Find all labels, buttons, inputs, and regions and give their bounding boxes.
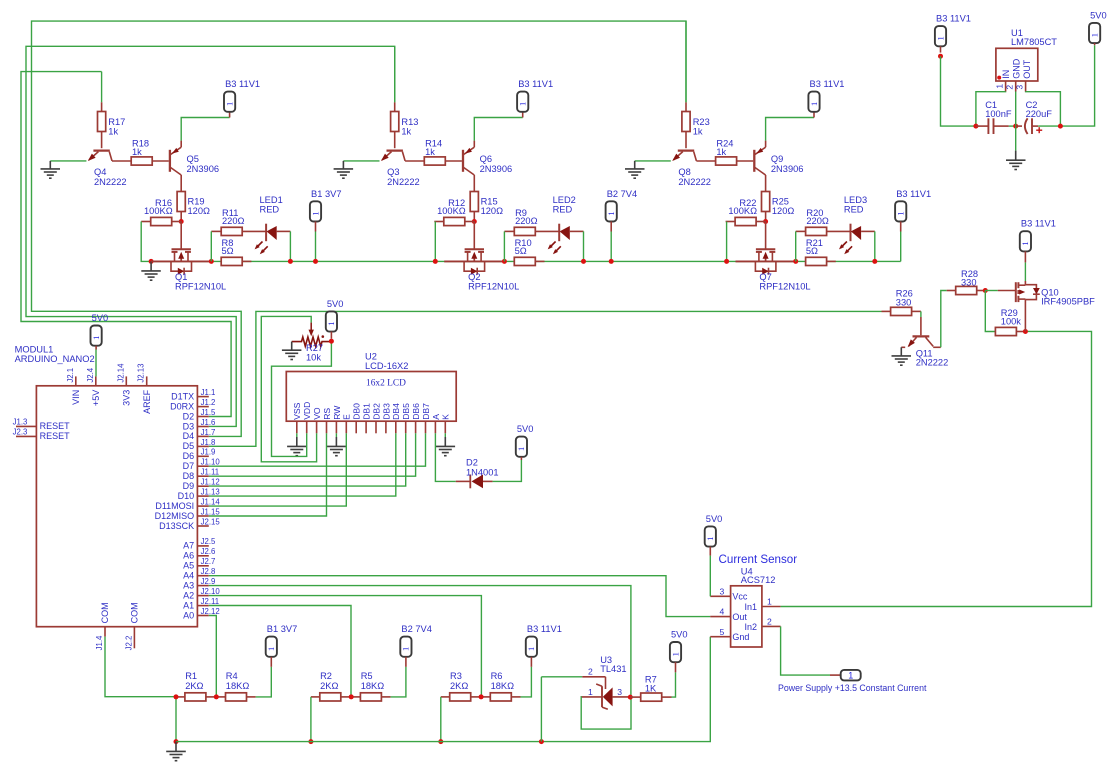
transistor Q9 2N3906 [754,141,803,192]
junction [149,259,154,264]
resistor R23 1k [685,102,687,111]
svg-text:DB4: DB4 [391,403,401,420]
svg-text:VO: VO [312,407,322,420]
wire (A1 to R2/R5) [209,606,351,698]
svg-text:RPF12N10L: RPF12N10L [759,282,810,292]
svg-text:LED1: LED1 [260,195,283,205]
pin VDD (U2) [302,402,312,434]
resistor R24 1k [696,138,753,165]
pin J1.13 D10 [178,488,220,501]
supply flag B3 11V1 (Q5 emitter) [224,79,260,117]
svg-text:D12MISO: D12MISO [155,511,195,521]
svg-text:R19: R19 [188,196,205,206]
resistor R13 1k [394,102,396,111]
ground [327,437,347,456]
wire [503,231,505,261]
svg-text:AREF: AREF [142,389,152,414]
wire (LCD A to D2) [435,433,455,481]
junction [433,259,438,264]
pin J2.2 COM [124,602,139,650]
svg-text:J2.15: J2.15 [201,517,221,526]
svg-text:R25: R25 [772,196,789,206]
pin J2.8 A4 [183,567,215,580]
svg-text:220Ω: 220Ω [515,216,538,226]
wire [493,460,522,481]
resistor R20 220Ω [796,208,851,236]
pin DB1 (U2) [362,403,372,433]
transistor Q10 IRF4905PBF (P-MOSFET) [998,281,1095,332]
svg-text:LCD-16X2: LCD-16X2 [365,361,408,371]
wire (D2 to R17 net) [21,72,231,417]
resistor R29 100k [995,308,1025,336]
wire [985,290,998,292]
svg-text:A1: A1 [183,600,194,610]
svg-text:D11MOSI: D11MOSI [155,501,194,511]
junction [983,288,988,293]
pin J2.10 A2 [183,587,220,600]
wire (U1 out) [1026,92,1061,127]
svg-text:J1.15: J1.15 [201,507,221,516]
svg-text:Q5: Q5 [187,154,199,164]
wire (D5 to R26 net) [209,311,882,446]
svg-text:D5: D5 [183,441,195,451]
wire [1009,125,1016,127]
svg-text:1: 1 [310,211,320,215]
svg-text:B3 11V1: B3 11V1 [936,14,971,24]
wire [343,160,379,162]
svg-text:1k: 1k [132,147,142,157]
pin J2.1 VIN [66,368,81,405]
pin J2.14 3V3 [116,363,131,406]
pin DB2 (U2) [371,403,381,433]
svg-text:VIN: VIN [71,390,81,405]
wire [315,232,317,262]
svg-text:2KΩ: 2KΩ [185,681,203,691]
svg-text:J1.8: J1.8 [201,438,216,447]
wire [521,667,532,697]
resistor R14 1k [405,138,462,165]
wire [736,260,796,262]
svg-text:Vcc: Vcc [732,591,748,601]
wire [583,231,585,261]
junction [1058,124,1063,129]
resistor R6 18KΩ [481,671,520,701]
svg-text:RPF12N10L: RPF12N10L [175,282,226,292]
pin J1.3 RESET [13,418,71,431]
wire [976,92,1006,127]
svg-text:RS: RS [322,408,332,420]
wire (D3 to R13 net) [26,46,395,426]
pin 5 Gnd (U4) [710,627,730,637]
junction [628,695,633,700]
svg-text:5Ω: 5Ω [806,246,818,256]
svg-text:K: K [441,414,451,420]
svg-text:A3: A3 [183,580,194,590]
svg-text:4: 4 [720,607,725,617]
ground [892,347,912,365]
junction [288,259,293,264]
wire (In1 to Q10) [781,331,1092,606]
svg-text:120Ω: 120Ω [772,206,795,216]
svg-text:D7: D7 [183,461,195,471]
junction [308,739,313,744]
resistor R15 120Ω [470,192,503,222]
svg-text:Gnd: Gnd [732,632,749,642]
svg-text:1: 1 [401,647,411,651]
svg-text:J2.6: J2.6 [201,547,216,556]
svg-text:2N2222: 2N2222 [916,357,949,367]
battery flag B2 7V4 [606,189,638,232]
ground [282,342,302,360]
pin A (U2) [431,414,441,434]
svg-text:J1.9: J1.9 [201,448,216,457]
wire (anode loop) [581,697,632,729]
svg-text:J1.6: J1.6 [201,418,216,427]
svg-text:E: E [342,414,352,420]
pin J1.9 D6 [183,448,216,461]
svg-text:Q2: Q2 [468,272,480,282]
pin DB0 (U2) [352,403,362,433]
wire (ground line) [176,637,710,742]
svg-text:2N2222: 2N2222 [94,177,127,187]
svg-text:In1: In1 [745,602,758,612]
svg-text:Out: Out [732,612,747,622]
junction [609,259,614,264]
supply flag 5V0 (backlight) [516,424,534,460]
svg-text:J2.13: J2.13 [137,364,146,383]
svg-text:ACS712: ACS712 [741,575,776,585]
supply flag B3 11V1 (Q9 emitter) [808,79,844,117]
svg-text:2: 2 [588,667,593,677]
svg-text:RESET: RESET [40,421,71,431]
wire (U1 GND) [1015,92,1017,151]
svg-text:R2: R2 [320,671,332,681]
svg-text:1: 1 [896,211,906,215]
pin 3 Vcc (U4) [710,586,730,596]
supply flag 5V0 (U4 Vcc) [705,514,723,556]
transistor Q7 RPF12N10L (N-MOSFET) [755,222,810,292]
svg-text:COM: COM [100,602,110,623]
resistor R10 5Ω [514,238,544,266]
pin J2.13 AREF [137,364,152,414]
svg-text:GND: GND [1011,58,1021,79]
svg-text:220Ω: 220Ω [806,216,829,226]
svg-text:J2.9: J2.9 [201,577,216,586]
junction [438,739,443,744]
svg-text:100k: 100k [1001,317,1022,327]
resistor R22 100KΩ [726,198,766,225]
wire (DB7 net) [209,433,426,466]
svg-text:1: 1 [518,102,528,106]
supply flag B3 11V1 (Q6 emitter) [517,79,553,117]
pin DB4 (U2) [391,403,401,433]
svg-text:2KΩ: 2KΩ [320,681,338,691]
svg-text:2N2222: 2N2222 [387,177,420,187]
pin J2.11 A1 [183,597,219,610]
svg-text:1: 1 [995,84,1005,89]
svg-text:Q9: Q9 [771,154,783,164]
svg-text:3: 3 [617,687,622,697]
resistor R7 1K [630,674,671,701]
potentiometer R27 10k [292,323,332,363]
wire [1024,262,1026,281]
svg-text:DB7: DB7 [421,403,431,420]
transistor Q8 2N2222 [672,151,711,187]
pin 2 GND (U1) [1005,81,1016,92]
wire (VO to R27 wiper) [261,316,316,461]
svg-text:J2.10: J2.10 [201,587,221,596]
LED LED1 RED [255,195,291,254]
pin J1.8 D5 [183,438,216,451]
svg-text:18KΩ: 18KΩ [491,681,515,691]
svg-text:RPF12N10L: RPF12N10L [468,282,519,292]
wire [900,232,902,262]
svg-text:RESET: RESET [40,431,71,441]
pin DB5 (U2) [401,403,411,433]
wire [920,311,922,317]
svg-text:R1: R1 [185,671,197,681]
svg-text:OUT: OUT [1022,59,1032,79]
wire [766,118,814,141]
wire [95,350,97,377]
pin VO (U2) [312,407,322,433]
pin J2.3 RESET [13,428,71,441]
svg-text:A4: A4 [183,571,194,581]
svg-text:5V0: 5V0 [706,514,723,524]
wire (A4 to U4 Out) [209,576,711,617]
junction [539,739,544,744]
ground [287,437,307,456]
pin J1.11 D8 [183,468,219,481]
wire [394,46,396,102]
junction [1023,329,1028,334]
svg-text:Current Sensor: Current Sensor [719,553,798,566]
svg-text:R13: R13 [401,117,418,127]
pin 1 In1 (U4) [762,597,781,607]
svg-text:B3 11V1: B3 11V1 [518,79,553,89]
svg-text:DB3: DB3 [381,403,391,420]
svg-text:D0RX: D0RX [170,401,194,411]
svg-text:1: 1 [606,211,616,215]
IC U4 ACS712 [731,567,776,647]
svg-text:+5V: +5V [91,390,101,406]
svg-text:1: 1 [516,447,526,451]
wire [726,222,728,262]
battery flag B2 7V4 [400,624,432,667]
wire [434,222,436,262]
resistor R17 1k [101,102,103,111]
IC U1 LM7805CT [996,28,1057,81]
wire [685,21,687,102]
svg-text:D2: D2 [183,411,195,421]
svg-text:D2: D2 [466,458,478,468]
svg-text:LM7805CT: LM7805CT [1011,37,1057,47]
wire [941,291,947,348]
ground [625,161,645,178]
pin RS (U2) [322,408,332,434]
junction [938,54,943,59]
svg-text:5V0: 5V0 [1090,10,1107,20]
wire (ref to ground line) [541,676,582,678]
pin J1.6 D3 [183,418,216,431]
svg-text:1k: 1k [716,147,726,157]
resistor R12 100KΩ [434,198,474,225]
svg-text:J2.7: J2.7 [201,557,216,566]
svg-text:J2.5: J2.5 [201,537,216,546]
junction [793,259,798,264]
junction [581,259,586,264]
svg-text:1: 1 [848,670,853,680]
pin 3 OUT (U1) [1015,81,1026,92]
svg-text:1: 1 [224,102,234,106]
svg-text:D4: D4 [183,431,195,441]
transistor Q4 2N2222 [88,151,127,187]
svg-text:DB1: DB1 [362,403,372,420]
wire (U1 input) [941,56,976,126]
wire [1038,45,1094,126]
svg-text:COM: COM [130,602,140,623]
wire (E net) [209,433,346,506]
resistor R26 330 [882,289,921,316]
wire [440,697,442,742]
pin J2.7 A5 [183,557,215,570]
resistor R16 100KΩ [141,198,181,225]
svg-text:1: 1 [266,647,276,651]
svg-text:B3 11V1: B3 11V1 [896,189,931,199]
svg-text:B3 11V1: B3 11V1 [1021,219,1056,229]
svg-text:J1.12: J1.12 [201,478,220,487]
svg-text:B2 7V4: B2 7V4 [607,189,638,199]
wire [141,222,151,262]
svg-text:ARDUINO_NANO2: ARDUINO_NANO2 [15,354,95,364]
ground [41,161,61,178]
pin J1.14 D11MOSI [155,497,220,511]
svg-text:D1TX: D1TX [171,391,194,401]
svg-text:J1.10: J1.10 [201,458,221,467]
svg-text:J2.1: J2.1 [66,368,75,383]
svg-text:5V0: 5V0 [327,299,344,309]
svg-text:RW: RW [332,405,342,420]
svg-text:1k: 1k [693,127,703,137]
svg-text:Q8: Q8 [678,167,690,177]
svg-text:J1.13: J1.13 [201,488,220,497]
svg-text:B1 3V7: B1 3V7 [311,189,342,199]
connector Power Supply [778,670,927,693]
pin VSS (U2) [292,402,302,433]
wire [151,260,211,262]
ground [1006,151,1026,170]
svg-text:100nF: 100nF [985,109,1012,119]
svg-text:1: 1 [935,36,945,40]
svg-text:2KΩ: 2KΩ [450,681,468,691]
svg-text:J1.11: J1.11 [201,468,220,477]
junction [1013,124,1018,129]
wire [672,672,676,697]
transistor Q3 2N2222 [381,151,420,187]
pin J2.5 A7 [183,537,216,550]
wire [985,291,995,332]
wire (COM to ground line) [105,637,176,697]
IC U3 TL431 (shunt reference) [581,655,631,709]
svg-text:RED: RED [844,205,864,215]
svg-text:B1 3V7: B1 3V7 [267,624,298,634]
svg-text:R17: R17 [108,117,125,127]
resistor R4 18KΩ [216,671,255,701]
svg-text:5: 5 [720,627,725,637]
junction [724,259,729,264]
diode D2 1N4001 [456,458,499,489]
wire (D4 to R23 net) [32,21,687,436]
svg-text:1k: 1k [425,147,435,157]
resistor R25 120Ω [762,192,795,222]
wire [444,433,446,437]
pin J2.6 A6 [183,547,215,560]
supply flag 5V0 (U1 out) [1089,10,1107,45]
svg-text:A0: A0 [183,610,194,620]
svg-text:A7: A7 [183,541,194,551]
svg-text:220Ω: 220Ω [222,216,245,226]
svg-text:IRF4905PBF: IRF4905PBF [1041,296,1095,306]
svg-text:5V0: 5V0 [671,630,688,640]
pin J1.4 COM [95,602,110,650]
svg-text:1K: 1K [645,683,657,693]
svg-text:100KΩ: 100KΩ [437,206,466,216]
svg-text:A: A [431,414,441,420]
wire [310,697,312,742]
wire (DB6 net) [209,433,416,476]
svg-text:120Ω: 120Ω [481,206,504,216]
wire (RS net) [209,433,327,516]
svg-text:R4: R4 [226,671,238,681]
svg-text:5V0: 5V0 [92,313,109,323]
resistor R3 2KΩ [441,671,481,701]
svg-text:2N3906: 2N3906 [771,164,804,174]
svg-text:U2: U2 [365,352,377,362]
svg-text:18KΩ: 18KΩ [361,681,385,691]
svg-text:J2.12: J2.12 [201,607,220,616]
pin J2.12 A0 [183,607,219,620]
pin J1.2 D0RX [170,398,215,412]
wire [181,118,229,141]
junction [209,259,214,264]
resistor R5 18KΩ [351,671,390,701]
svg-text:LED3: LED3 [844,195,867,205]
svg-text:1: 1 [767,597,772,607]
svg-text:Q7: Q7 [759,272,771,282]
resistor R21 5Ω [806,238,836,266]
junction [872,259,877,264]
ground [334,161,354,178]
svg-text:1: 1 [91,336,101,340]
svg-text:J1.1: J1.1 [201,388,216,397]
junction [329,339,334,344]
svg-text:100KΩ: 100KΩ [144,206,173,216]
svg-text:B2 7V4: B2 7V4 [401,624,432,634]
junction [313,259,318,264]
svg-text:D8: D8 [183,471,195,481]
wire [795,231,797,261]
svg-text:Power Supply +13.5 Constant Cu: Power Supply +13.5 Constant Current [778,683,927,693]
wire [335,433,337,437]
svg-text:RED: RED [553,205,573,215]
battery flag B3 11V1 [526,624,562,667]
svg-text:1: 1 [326,321,336,325]
supply flag 5V0 (R27) [326,299,344,339]
wire [175,697,177,742]
svg-text:1: 1 [588,687,593,697]
svg-text:MODUL1: MODUL1 [15,345,54,355]
resistor R28 330 [947,269,986,295]
